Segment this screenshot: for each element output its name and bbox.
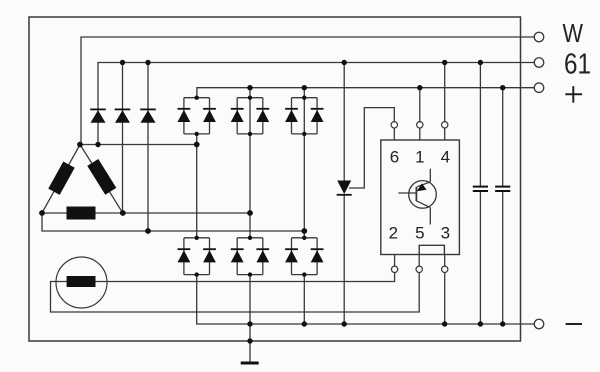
regulator pin 3 terminal [442, 266, 448, 272]
node exciter D9 on 61 line [145, 60, 150, 65]
wire regulator pin 3 to minus bus [444, 273, 446, 325]
svg-text:1: 1 [415, 148, 424, 167]
main diode pair D1 (positive, phase 1) [178, 96, 216, 137]
node exciter D7 phase 1 [95, 142, 100, 147]
svg-text:3: 3 [441, 223, 450, 242]
wire main pair 3 vertical [303, 88, 305, 238]
node D3 on plus bus [302, 85, 307, 90]
node D2 on plus bus [247, 85, 252, 90]
ground [241, 362, 259, 365]
exciter diode D7 [90, 109, 106, 122]
wire phase 1 node line [80, 144, 197, 146]
wire bottom pair 3 to minus bus [303, 275, 305, 324]
node delta bottom-right [120, 210, 126, 216]
stator winding L3 (delta bottom) [67, 207, 96, 220]
main diode pair D3 (positive, phase 3) [285, 96, 323, 137]
capacitor C1 [473, 187, 488, 191]
wire minus bus [197, 275, 535, 324]
wire zener to minus bus [343, 195, 345, 324]
delta left side [42, 145, 80, 214]
voltage regulator U1 box [381, 140, 460, 255]
wire main pair 1 vertical [196, 134, 198, 238]
transistor Q1 emitter arrow [417, 183, 427, 191]
node exciter D8 on 61 line [120, 60, 125, 65]
node C2 on plus bus [500, 85, 505, 90]
regulator pin 1 terminal [417, 122, 423, 128]
regulator pin 5 terminal [416, 266, 422, 272]
regulator pin 4 terminal [442, 122, 448, 128]
wire 61 line [98, 63, 534, 145]
svg-text:W: W [563, 18, 584, 48]
wire main pair 2 vertical [249, 88, 251, 238]
node C2 on minus bus [500, 321, 505, 326]
node C1 on minus bus [478, 321, 483, 326]
main diode pair D4 (negative, phase 1) [178, 236, 216, 277]
label minus [566, 323, 582, 325]
terminal B+ [534, 83, 544, 93]
wire ground vertical [249, 275, 251, 362]
node zener on 61 line [342, 60, 347, 65]
svg-text:2: 2 [389, 223, 398, 242]
wire regulator pin 4 to 61 line [444, 63, 446, 122]
wire regulator pin 5 to rotor left [51, 273, 420, 313]
node exciter D9 phase 3 [145, 228, 151, 234]
wire plus bus [197, 88, 534, 98]
node pin1 on plus bus [417, 85, 422, 90]
node pair D3 phase 3 [301, 228, 307, 234]
wire regulator pin 6 to zener [350, 108, 395, 188]
node pin4 on 61 line [442, 60, 447, 65]
main diode pair D5 (negative, phase 2) [231, 236, 269, 277]
stator winding L2 (delta right) [87, 159, 116, 195]
wire exciter diode 2 vertical [122, 63, 124, 214]
node C1 on 61 line [478, 60, 483, 65]
rotor field winding G1 [56, 257, 107, 308]
wire capacitor C1 top [479, 63, 481, 186]
wire exciter diode 3 vertical [147, 63, 149, 232]
node zener on minus bus [342, 321, 347, 326]
capacitor C2 [495, 187, 510, 191]
wire W line [81, 37, 534, 145]
regulator pin 6 terminal [391, 122, 397, 128]
node pin3 on minus bus [442, 321, 447, 326]
wire capacitor C1 bottom [479, 192, 481, 324]
node ground on minus bus [247, 321, 252, 326]
terminal B- [534, 319, 544, 329]
transistor Q1 [398, 169, 436, 225]
node delta apex [77, 142, 83, 148]
svg-text:5: 5 [415, 223, 424, 242]
terminal 61 [534, 58, 544, 68]
main diode pair D6 (negative, phase 3) [285, 236, 323, 277]
node ground on case [247, 338, 252, 343]
node dots [39, 60, 505, 344]
wire regulator pin 2 to rotor right [96, 273, 395, 282]
regulator pin stubs [394, 128, 444, 266]
svg-text:4: 4 [441, 148, 450, 167]
terminal W [534, 32, 544, 42]
svg-text:61: 61 [564, 49, 591, 81]
svg-text:6: 6 [390, 148, 399, 167]
wire capacitor C2 bottom [502, 192, 504, 324]
stator winding L1 (delta left) [48, 161, 74, 194]
delta right side [80, 145, 123, 214]
regulator pin 2 terminal [391, 266, 397, 272]
zener diode D10 [337, 181, 352, 195]
node pair D2 phase 2 [247, 210, 253, 216]
wire capacitor C2 top [502, 88, 504, 186]
wire regulator pin 1 to plus bus [419, 88, 421, 122]
wire phase 3 node line [42, 213, 304, 231]
main diode pair D2 (positive, phase 2) [231, 96, 269, 137]
node pair D6 on minus bus [302, 321, 307, 326]
exciter diode D9 [140, 109, 156, 122]
wire zener branch [343, 63, 345, 181]
label plus [565, 86, 582, 102]
node pair D1 phase 1 [194, 142, 200, 148]
alternator case border [29, 17, 521, 341]
wire phase 2 node line [42, 212, 250, 214]
exciter diode D8 [115, 109, 131, 122]
node delta bottom-left [39, 210, 45, 216]
